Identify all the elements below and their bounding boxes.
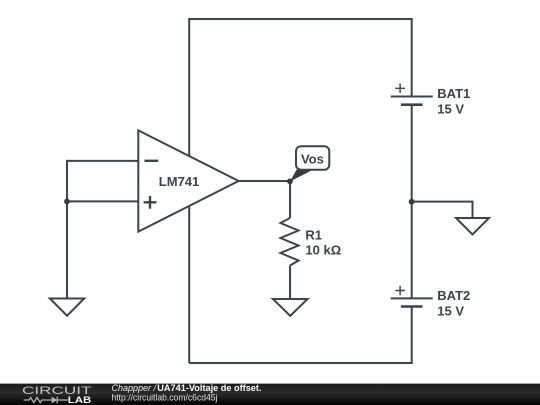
svg-text:http://circuitlab.com/c6cd45j: http://circuitlab.com/c6cd45j (112, 393, 218, 403)
value BAT1 15 V (437, 102, 464, 117)
label LM741 (159, 174, 199, 189)
footer url (112, 393, 218, 403)
node label Vos text (301, 151, 324, 166)
svg-text:UA741-Voltaje de offset.: UA741-Voltaje de offset. (157, 383, 261, 393)
value R1 10 kOhm (305, 243, 341, 258)
battery BAT2 (391, 286, 433, 307)
ground (left) (50, 299, 84, 316)
node label Vos box (296, 146, 329, 170)
logo resistor-diode symbol (24, 397, 68, 404)
svg-text:LAB: LAB (68, 395, 92, 405)
wire op-amp output (239, 180, 290, 182)
node A junction dot (right rail) (409, 199, 415, 205)
wire non-inverting input (67, 200, 138, 202)
wire left vertical to ground (66, 160, 68, 299)
wire BAT2 to bottom rail (411, 307, 413, 365)
svg-text:BAT1: BAT1 (437, 86, 470, 101)
footer title (bold) (157, 383, 261, 393)
op-amp non-inverting pin marker (plus) (144, 196, 157, 209)
svg-text:BAT2: BAT2 (437, 288, 470, 303)
svg-text:10 kΩ: 10 kΩ (305, 243, 341, 258)
wire left supply drop (through op-amp body) (188, 18, 190, 363)
svg-text:15 V: 15 V (437, 102, 464, 117)
wire R1 to ground (289, 266, 291, 300)
logo CIRCUIT text (22, 385, 92, 397)
ground (below R1) (273, 299, 308, 316)
op-amp inverting pin marker (minus) (145, 160, 159, 162)
label BAT2 (437, 288, 470, 303)
junction dot left input (64, 199, 70, 205)
svg-text:Vos: Vos (301, 151, 324, 166)
wire right rail top to BAT1 (411, 18, 413, 97)
op-amp U1 LM741 body (138, 130, 238, 231)
footer bar (0, 384, 540, 405)
wire BAT1 to BAT2 through node A (411, 105, 413, 299)
ground (right, node A) (456, 218, 489, 235)
wire top supply rail (189, 18, 412, 20)
battery BAT1 (391, 84, 433, 105)
svg-text:R1: R1 (305, 228, 322, 243)
svg-text:15 V: 15 V (437, 304, 464, 319)
wire inverting input (67, 160, 138, 162)
resistor R1 zigzag (281, 218, 299, 266)
wire node A to right ground (412, 202, 473, 218)
node flag pointer for Vos (290, 170, 313, 182)
value BAT2 15 V (437, 304, 464, 319)
wire bottom supply rail (189, 362, 412, 364)
svg-text:LM741: LM741 (159, 174, 199, 189)
svg-text:Chappper /: Chappper / (112, 383, 159, 393)
footer author (italic) (112, 383, 159, 393)
logo LAB text (68, 395, 92, 405)
wire output node to R1 (289, 181, 291, 218)
junction dot output node (287, 178, 293, 184)
label BAT1 (437, 86, 470, 101)
label R1 (305, 228, 322, 243)
